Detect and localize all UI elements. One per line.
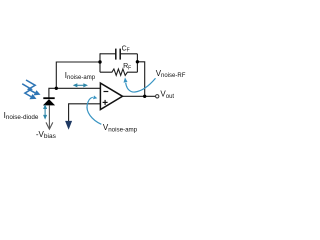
- -Vbias arrow shaft: [48, 105, 50, 128]
- op-amp minus sign: [104, 91, 109, 93]
- -Vbias arrowhead: [46, 122, 53, 129]
- svg-text:Vnoise-RF: Vnoise-RF: [156, 69, 186, 79]
- V noise-amp annotation arrow: [87, 97, 101, 124]
- wire loop left vertical: [99, 53, 101, 72]
- wire inverting-input: [49, 88, 100, 97]
- svg-text:Vnoise-amp: Vnoise-amp: [103, 123, 138, 133]
- wire cap branch left: [100, 53, 116, 55]
- ground arrow below noninverting input: [65, 121, 72, 130]
- wire cap branch right: [121, 53, 138, 55]
- wire loop right vertical: [136, 54, 138, 72]
- output terminal circle: [156, 95, 159, 98]
- photodiode D1: [43, 98, 55, 105]
- junction node dots: [55, 60, 147, 98]
- node loop left: [98, 60, 101, 63]
- wire feedback to output: [137, 62, 144, 97]
- photon arrow 1: [26, 80, 35, 93]
- svg-text:Vout: Vout: [160, 90, 174, 100]
- svg-text:-Vbias: -Vbias: [36, 130, 57, 140]
- capacitor C_F plates: [116, 49, 120, 60]
- op-amp plus sign: [103, 100, 108, 105]
- I noise-amp double arrow: [74, 84, 87, 86]
- svg-text:CF: CF: [122, 45, 130, 53]
- resistor R_F zigzag: [100, 69, 137, 75]
- node loop right: [136, 60, 139, 63]
- wire noninverting input: [69, 104, 101, 121]
- I noise-diode double arrow: [44, 106, 46, 119]
- op-amp U1: [100, 83, 122, 109]
- wire output: [123, 95, 156, 97]
- node output junction: [143, 95, 146, 98]
- svg-text:Inoise-diode: Inoise-diode: [4, 111, 39, 121]
- node photodiode/amp junction: [55, 87, 58, 90]
- wire vertical feedback riser: [56, 62, 100, 88]
- photon arrow 2: [22, 84, 31, 97]
- V noise-RF annotation arrow: [126, 78, 156, 92]
- svg-text:RF: RF: [123, 63, 131, 71]
- svg-text:Inoise-amp: Inoise-amp: [65, 71, 96, 81]
